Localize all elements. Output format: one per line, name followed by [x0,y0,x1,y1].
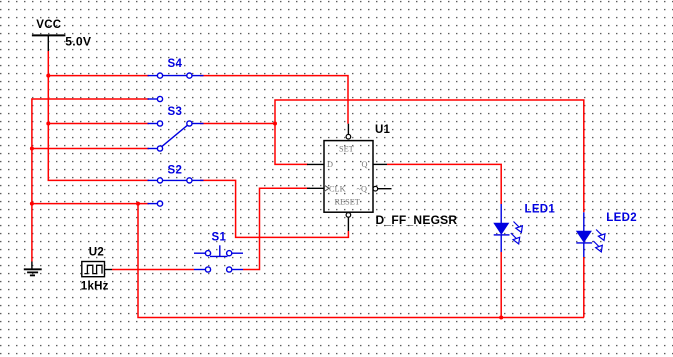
switch S2 [148,165,204,207]
wire ground to S3 throw2 [32,148,149,150]
junction LED1 cathode on bottom rail [499,316,503,320]
svg-text:S4: S4 [168,58,183,70]
svg-text:1kHz: 1kHz [81,281,109,293]
svg-text:~Q: ~Q [357,184,367,193]
svg-text:LED1: LED1 [525,204,556,216]
junction ground-S2 [30,202,34,206]
wire VCC rail vertical [48,51,149,180]
wire LED2 cathode to bottom rail [583,257,585,318]
wire VCC to S3 throw1 [48,123,149,125]
junction VCC-S3 [46,122,50,126]
wire S2 common to RESET pin [200,180,348,237]
wire Q output to LED1 anode [387,164,501,204]
LED1 [494,204,556,253]
switch S3 [148,106,204,151]
svg-text:D_FF_NEGSR: D_FF_NEGSR [376,213,458,227]
svg-text:S3: S3 [168,106,183,118]
switch S4 [148,58,204,102]
svg-text:5.0V: 5.0V [65,35,92,49]
wire S1 to CLK pin [243,188,310,269]
wire node to LED2 anode [275,100,584,212]
svg-text:S1: S1 [212,232,227,244]
wire node to D pin [275,124,308,165]
svg-text:D: D [327,160,333,169]
svg-text:SET: SET [339,145,354,154]
wire ground rail vertical [32,99,149,262]
wire LED1 cathode to bottom rail [500,252,502,318]
wire S4 common to SET pin [200,76,348,124]
wire VCC to S4 throw1 [48,75,149,77]
power VCC V1 [32,19,92,51]
ground symbol GND [24,262,42,276]
wire S3 common to node D/LED2 [200,123,275,125]
junction ground-S3 [30,147,34,151]
junction VCC-S4 [46,74,50,78]
svg-text:Q: Q [362,160,368,169]
svg-text:S2: S2 [168,165,183,177]
LED2 [576,212,637,257]
junction node S3-D-LED2 [273,122,277,126]
switch S1 push button [194,232,243,273]
wire down to bottom rail [138,204,584,318]
svg-text:CLK: CLK [329,184,346,193]
svg-text:VCC: VCC [36,19,61,31]
clock source U2 [81,247,112,293]
junction ground rail to bottom rail [136,202,140,206]
svg-text:U2: U2 [89,247,104,259]
svg-text:U1: U1 [375,124,391,136]
svg-text:RESET: RESET [335,197,360,206]
op-amp U1 D flip-flop box [307,124,457,231]
wire U2 output to S1 [112,269,194,271]
svg-text:LED2: LED2 [606,212,637,224]
wire ground to S2 throw2 [32,203,149,205]
